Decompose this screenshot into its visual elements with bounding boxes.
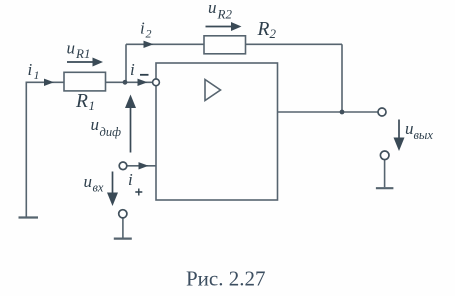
voltage arrow u_dif (up) xyxy=(125,95,136,153)
svg-text:u: u xyxy=(84,172,93,191)
svg-text:i: i xyxy=(130,60,135,79)
label i at noninverting input xyxy=(128,170,133,189)
svg-text:R: R xyxy=(75,91,88,112)
svg-text:вх: вх xyxy=(93,181,104,195)
label R2 xyxy=(257,19,277,41)
svg-text:1: 1 xyxy=(89,98,96,113)
wire R2 to corner xyxy=(246,43,343,45)
svg-text:R1: R1 xyxy=(75,46,90,61)
terminal circle input lower xyxy=(119,210,127,218)
op-amp triangle symbol xyxy=(205,80,221,101)
wire noninverting input xyxy=(127,165,157,167)
wire lower-right terminal to ground xyxy=(384,160,386,187)
wire node up to feedback branch xyxy=(125,44,127,82)
terminal circle inverting input xyxy=(153,79,160,86)
wire top to R2 xyxy=(126,43,204,45)
label i2 xyxy=(140,19,152,41)
label i at inverting input xyxy=(130,60,135,79)
svg-text:u: u xyxy=(67,39,76,58)
svg-text:u: u xyxy=(91,115,100,134)
label uR2 xyxy=(208,0,232,22)
label u_vyx xyxy=(405,119,433,142)
wire node to inverting input xyxy=(125,81,153,83)
node output junction dot xyxy=(340,110,345,115)
wire output xyxy=(278,111,379,113)
svg-text:R2: R2 xyxy=(217,7,233,22)
svg-text:i: i xyxy=(140,19,145,38)
svg-text:R: R xyxy=(257,19,270,40)
minus sign at inverting input xyxy=(140,74,149,76)
wire lower input terminal to ground xyxy=(122,218,124,238)
voltage arrow uR1 xyxy=(67,58,103,67)
ground left xyxy=(19,216,39,218)
svg-text:u: u xyxy=(208,0,217,17)
label u_vx xyxy=(84,172,104,195)
arrowhead current i1 xyxy=(44,79,54,86)
plus sign at noninverting input xyxy=(135,189,142,196)
wire left vertical down xyxy=(25,82,27,217)
resistor R2 xyxy=(204,36,246,54)
label u_dif xyxy=(91,115,122,139)
voltage arrow u_vx (down) xyxy=(107,172,118,207)
svg-text:u: u xyxy=(405,119,414,138)
terminal circle output upper xyxy=(378,108,386,116)
svg-text:Рис. 2.27: Рис. 2.27 xyxy=(186,267,266,291)
terminal circle noninverting input xyxy=(119,162,127,170)
svg-text:вых: вых xyxy=(414,128,434,142)
voltage arrow uR2 xyxy=(206,22,242,31)
svg-text:i: i xyxy=(28,60,33,79)
svg-text:2: 2 xyxy=(270,26,277,41)
label i1 xyxy=(28,60,40,82)
node A junction dot xyxy=(123,80,128,85)
svg-text:2: 2 xyxy=(146,27,152,41)
svg-text:i: i xyxy=(128,170,133,189)
voltage arrow u_vyx (down) xyxy=(394,120,405,152)
label uR1 xyxy=(67,39,91,62)
svg-text:1: 1 xyxy=(34,68,40,82)
svg-text:диф: диф xyxy=(100,125,122,139)
wire input horizontal to R1 xyxy=(26,81,65,83)
ground right xyxy=(376,187,394,189)
arrowhead current i2 xyxy=(144,41,154,48)
op-amp U1 xyxy=(156,63,278,200)
wire feedback vertical down xyxy=(341,44,343,112)
wire R1 to node xyxy=(106,81,126,83)
label R1 xyxy=(75,91,95,113)
arrowhead current i minus input xyxy=(138,79,148,86)
terminal circle output lower xyxy=(380,151,389,160)
arrowhead current i plus input xyxy=(139,162,149,169)
resistor R1 xyxy=(64,72,106,91)
ground input xyxy=(114,238,132,240)
